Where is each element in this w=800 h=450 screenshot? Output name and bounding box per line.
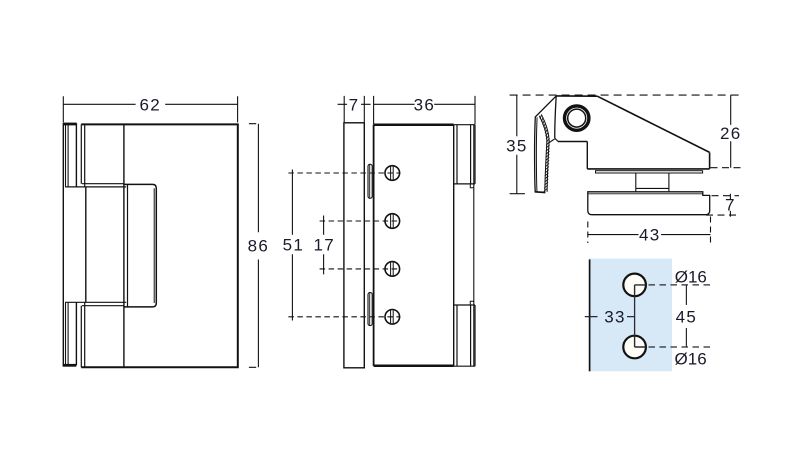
svg-text:35: 35 [506,137,528,156]
dimension 7 pad dashed extensions [712,195,740,197]
top view: thin plate under wedge [596,171,703,173]
dimension 43 line [588,234,711,236]
svg-text:17: 17 [314,236,336,255]
glass template: hole 2 quadrant lines [635,336,646,347]
dimension 62 extension lines [63,96,237,122]
side view: body face top thick edge [374,123,454,126]
top view: block lower-left vertical [586,142,588,169]
dimension 7 line [338,103,371,105]
dimension 45 line [685,285,687,347]
side view: clamp pad upper [368,164,372,198]
side view: back plate [344,123,364,368]
glass template: hole centers connecting line [634,296,636,336]
front view: strip inner line a [65,123,67,365]
side view: body face left edge [373,125,375,366]
dimension 7 pad line stubs [729,194,731,217]
dimension 62 line [63,103,237,105]
top view: pivot outer ring [565,106,589,130]
svg-text:45: 45 [676,308,698,327]
svg-text:7: 7 [349,95,360,114]
svg-text:43: 43 [639,226,661,245]
glass template: dashed leader hole 1 [649,284,714,286]
glass template: glass pane [590,259,672,372]
dimension 26 bottom dashed extension [711,167,743,169]
top view: construction dashed line [510,94,743,96]
top view: wedge right edge [709,152,711,169]
side view dashed centerlines rows 1 and 4 [288,173,400,317]
svg-text:86: 86 [248,237,270,256]
top view: body top edge [556,95,597,97]
side view: screw hole 4 [385,310,400,325]
top view: block leading edge [555,96,556,138]
top view: gasket hatching [540,114,550,191]
dimension 36 line [374,103,475,105]
front view: strip inner line b [67,123,69,365]
dimension 33 line [585,316,635,318]
dimension 86 extension ticks [249,124,256,368]
top view: stem [636,173,669,192]
front view: clamp block inner left line [127,184,129,307]
svg-text:62: 62 [140,95,162,114]
dimension 36 extension lines [374,96,475,124]
dimension 26 line [730,95,732,168]
front view: strip right edge [75,123,77,365]
front view: clamp block inner right line [153,188,155,303]
glass template: hole 1 [623,274,646,297]
glass template: dashed leader hole 2 [649,346,714,348]
svg-text:51: 51 [283,236,305,255]
svg-text:Ø16: Ø16 [675,350,707,369]
dimension 86 line [257,124,259,368]
top view: wedge hypotenuse [597,96,709,152]
side view: knuckle column left vertical [453,125,455,367]
side view: knuckle column inner vertical [473,125,475,367]
side view: screw hole 2 [385,214,400,229]
dimension 7 extension lines [344,96,364,122]
svg-text:33: 33 [604,308,626,327]
svg-text:Ø16: Ø16 [675,267,707,286]
front view: hinge leaf edge strip top cap [63,123,77,126]
side view: knuckle bottom block notch [470,301,474,305]
side view: knuckle bottom block [454,305,475,366]
top view: wedge bottom edge [587,168,709,170]
top view: chamfer at lever junction [555,138,558,141]
side view: body face bottom thick edge [374,365,454,368]
top view: lever bottom cap [535,191,546,194]
front view: body left edge middle [85,187,87,302]
top view: base pad [588,192,710,215]
glass template: hole 1 quadrant lines [635,285,646,296]
front view: lower step lines [65,302,126,305]
dimension 43 extension dashed lines [588,217,711,244]
top view: pivot inner ring [568,109,586,127]
top view: gasket band boundaries [539,116,547,192]
front view: upper step lines [65,184,126,187]
front view: clamp block outline [124,184,156,307]
front view: body left edge lower pair [81,302,84,367]
front view: strip outer left edge [62,123,64,366]
side view: knuckle top block notch [470,184,474,188]
front view: body left edge upper pair [81,124,84,186]
top view: base pad inner top line [589,193,703,195]
svg-text:26: 26 [720,124,742,143]
top view: lever outer edge double line [535,96,557,192]
glass template: hole 2 [623,336,646,359]
front view: inner separation vertical [123,124,125,367]
front view: hinge leaf edge strip bottom cap [63,364,77,367]
dimension 51 line [291,170,293,321]
side view: clamp pad lower [368,293,372,326]
side view dashed centerlines rows 2 and 3 [320,221,401,269]
svg-text:36: 36 [414,95,436,114]
top view: junction diagonal [548,139,554,143]
dimension 35 line [516,95,518,194]
dimension 17 line [323,216,325,275]
svg-text:7: 7 [725,196,736,215]
dimension 35 bottom tick [510,193,525,195]
side view: screw hole 1 [385,166,400,181]
top view: block bottom edge [558,141,587,143]
side view: screw hole 3 [385,262,400,277]
front view: body plate outline top/right/bottom [81,124,238,367]
side view: knuckle top block [454,125,475,184]
glass template: glass left edge [589,259,591,371]
